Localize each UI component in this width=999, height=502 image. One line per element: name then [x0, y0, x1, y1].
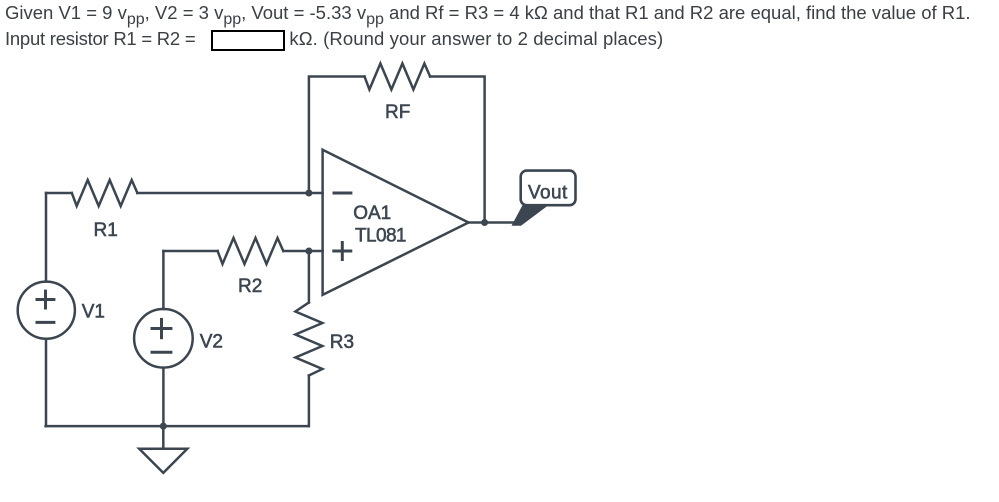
voltage source V1 — [18, 282, 75, 339]
Vout pointer wedge — [512, 204, 548, 226]
svg-text:RF: RF — [385, 102, 410, 123]
resistor R2 — [218, 238, 284, 264]
Vout label box — [521, 171, 576, 206]
resistor R3 — [295, 303, 322, 376]
wire: V1 top lead up to R1 level — [45, 193, 48, 282]
op-amp minus input symbol — [333, 192, 353, 195]
resistor R1 — [72, 180, 138, 206]
svg-text:R3: R3 — [330, 332, 354, 353]
wire: RF right leg down to output — [430, 77, 485, 223]
label TL081 — [355, 225, 406, 246]
svg-text:Vout: Vout — [528, 182, 568, 203]
wire: left horizontal into R1 — [46, 192, 72, 195]
svg-text:R1: R1 — [94, 220, 118, 241]
question text line 2 — [5, 30, 195, 49]
wire: bottom ground rail — [46, 425, 309, 428]
voltage source V2 — [134, 309, 193, 368]
answer input box — [211, 30, 286, 51]
node: non-inverting input junction dot — [305, 248, 312, 255]
wire: R2 to op-amp non-inverting input — [283, 250, 322, 253]
question text line 1 — [5, 4, 971, 23]
wire: op-amp output — [469, 221, 515, 224]
node: inverting input junction dot — [305, 190, 312, 197]
node: ground rail junction dot — [160, 423, 167, 430]
wire: V1 bottom lead — [45, 339, 48, 426]
wire: R1 to op-amp inverting input — [137, 192, 322, 195]
wire: RF left leg up — [309, 77, 365, 194]
svg-text:TL081: TL081 — [355, 225, 406, 246]
wire: R3 bottom lead down to ground rail — [308, 376, 311, 427]
label Vout — [528, 182, 568, 203]
wire: left horizontal into R2 — [163, 250, 217, 253]
node: output junction dot — [481, 219, 488, 226]
label V1 — [82, 301, 105, 322]
label R3 — [330, 332, 354, 353]
svg-text:V1: V1 — [82, 301, 105, 322]
wire: from non-inverting node down to R3 — [308, 251, 311, 303]
op-amp U1 triangle — [323, 150, 469, 295]
ground symbol — [139, 426, 187, 473]
label V2 — [200, 331, 223, 352]
wire: V2 top lead up to R2 level — [162, 251, 165, 309]
label R1 — [94, 220, 118, 241]
svg-text:V2: V2 — [200, 331, 223, 352]
label RF — [385, 102, 410, 123]
resistor RF — [365, 64, 431, 90]
op-amp plus input symbol — [332, 241, 352, 261]
svg-text:OA1: OA1 — [353, 203, 391, 224]
label OA1 — [353, 203, 391, 224]
wire: V2 bottom lead — [162, 368, 165, 426]
svg-text:R2: R2 — [238, 276, 262, 297]
label R2 — [238, 276, 262, 297]
